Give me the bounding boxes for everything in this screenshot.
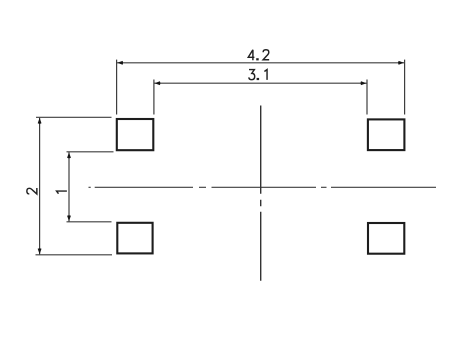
dimension line 1 (vertical) (68, 152, 70, 221)
dimension line 2 (vertical) (39, 118, 41, 255)
arrowhead 2 bottom (38, 248, 42, 254)
arrowhead 2 top (38, 118, 42, 124)
dimension text 2 (rotated) (27, 188, 37, 194)
arrowhead 3.1 right (361, 81, 367, 85)
extension line right outer (x=404.6 vertical for 4.2) (404, 60, 406, 115)
arrowhead 1 bottom (67, 215, 71, 221)
dimension line 3.1 (horizontal) (154, 82, 366, 84)
dimension text 1 (rotated) (57, 191, 67, 194)
extension line lower for dim 1 (y=221.8 horizontal) (67, 221, 112, 223)
centerline vertical (dash-dot) (260, 106, 262, 281)
dimension text 4.2 (248, 50, 269, 61)
extension line top for dim 2 (y=117.3 horizontal) (36, 116, 112, 118)
arrowhead 4.2 left (117, 61, 123, 65)
pad TL (top-left land square) (117, 119, 154, 150)
arrowhead 1 top (67, 152, 71, 158)
extension line left outer (x=116.5 vertical above TL pad) (116, 60, 118, 115)
arrowhead 3.1 left (155, 81, 161, 85)
arrowhead 4.2 right (398, 61, 404, 65)
extension line bottom for dim 2 (y=254.8 horizontal) (36, 254, 113, 256)
extension line left inner (x=153.9 vertical for 3.1) (153, 80, 155, 115)
centerline horizontal (dash-dot through pads) (89, 186, 437, 188)
extension line upper for dim 1 (y=151.8 horizontal) (67, 151, 114, 153)
pad BL (bottom-left land square) (117, 223, 152, 254)
dimension text 3.1 (249, 70, 267, 81)
pad BR (bottom-right land square) (368, 223, 404, 254)
dimension line 4.2 (horizontal) (117, 62, 404, 64)
pad TR (top-right land square) (368, 119, 405, 150)
extension line right inner (x=367 vertical for 3.1) (366, 80, 368, 115)
